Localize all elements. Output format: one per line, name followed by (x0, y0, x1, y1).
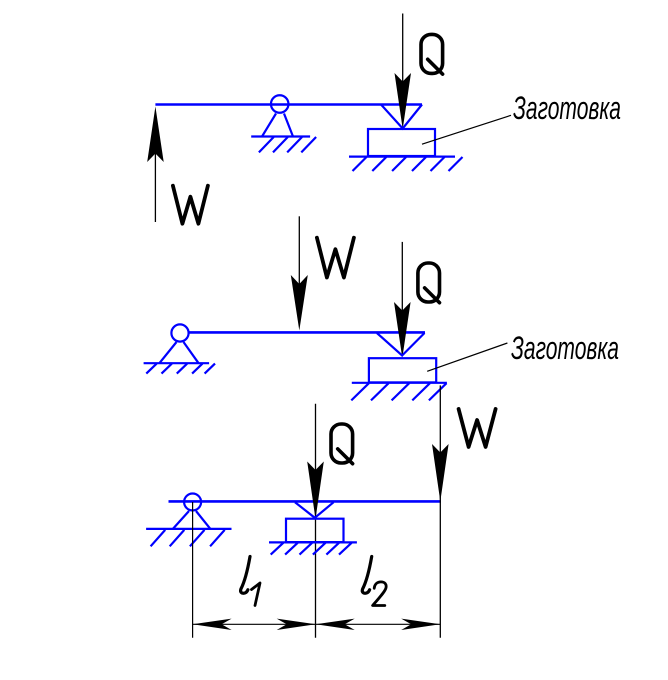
workpiece ground hatching 1 (353, 157, 463, 171)
workpiece ground line 1 (349, 156, 455, 158)
force Q2 arrowhead (down) (394, 302, 411, 358)
dimension extension line left (192, 502, 194, 638)
wire beam lever 1 (155, 103, 422, 106)
pivot support S3 hatching (151, 530, 225, 546)
dimension arrowhead l1 right (points right) (277, 619, 316, 630)
V-rest on beam 3 (295, 502, 334, 518)
pivot support S1 circle (271, 95, 289, 113)
leader line to label 1 (422, 115, 511, 144)
workpiece ground line 3 (269, 541, 357, 543)
pivot support S1 triangle (262, 114, 293, 137)
label Q3 (331, 424, 353, 464)
wire beam lever 3 (169, 500, 442, 503)
force Q3 arrowhead (down) (307, 462, 324, 520)
svg-text:Заготовка: Заготовка (511, 330, 619, 366)
pivot support S3 circle (184, 494, 201, 511)
pivot support S1 hatching (259, 137, 316, 152)
force W1 shaft (154, 150, 156, 222)
V-rest on beam 2 (377, 333, 425, 356)
pivot support S3 triangle (173, 511, 210, 529)
svg-text:Заготовка: Заготовка (513, 90, 621, 126)
dimension line (193, 623, 441, 625)
label l2 (362, 557, 386, 606)
V-rest on beam 1 (381, 105, 422, 129)
pivot support S2 hatching (146, 364, 215, 374)
pivot support S2 triangle (160, 342, 199, 363)
dimension arrowhead l2 left (points left) (316, 619, 355, 630)
force Q1 arrowhead (down) (395, 73, 412, 129)
workpiece block 2 (369, 358, 436, 382)
label W1 (173, 186, 208, 224)
pivot support S2 circle (171, 324, 188, 341)
workpiece block 1 (368, 129, 435, 156)
pivot support S3 ground line (146, 528, 231, 530)
pivot support S1 ground line (251, 135, 310, 137)
force W1 arrowhead (up) (147, 107, 164, 163)
force Q3 shaft and extension line (315, 404, 317, 638)
workpiece ground hatching 3 (271, 543, 352, 555)
workpiece block 3 (286, 519, 344, 542)
force W3 arrowhead (down) (432, 444, 449, 501)
label Q2 (418, 263, 440, 303)
dimension arrowhead l1 left (points left) (193, 619, 232, 630)
force W3 shaft and extension line (439, 385, 441, 637)
label Q1 (421, 34, 443, 74)
wire beam lever 2 (189, 331, 426, 334)
force W2 shaft (298, 216, 300, 290)
label W3 (459, 409, 496, 447)
workpiece ground hatching 2 (351, 383, 446, 400)
force Q2 shaft (401, 242, 403, 315)
force W2 arrowhead (down) (291, 275, 308, 331)
label W2 (317, 238, 354, 278)
force Q1 shaft (402, 14, 404, 91)
workpiece ground line 2 (352, 382, 447, 384)
leader line to label 2 (427, 343, 507, 371)
pivot support S2 ground line (144, 362, 210, 364)
label l1 (241, 557, 260, 606)
dimension arrowhead l2 right (points right) (401, 619, 440, 630)
